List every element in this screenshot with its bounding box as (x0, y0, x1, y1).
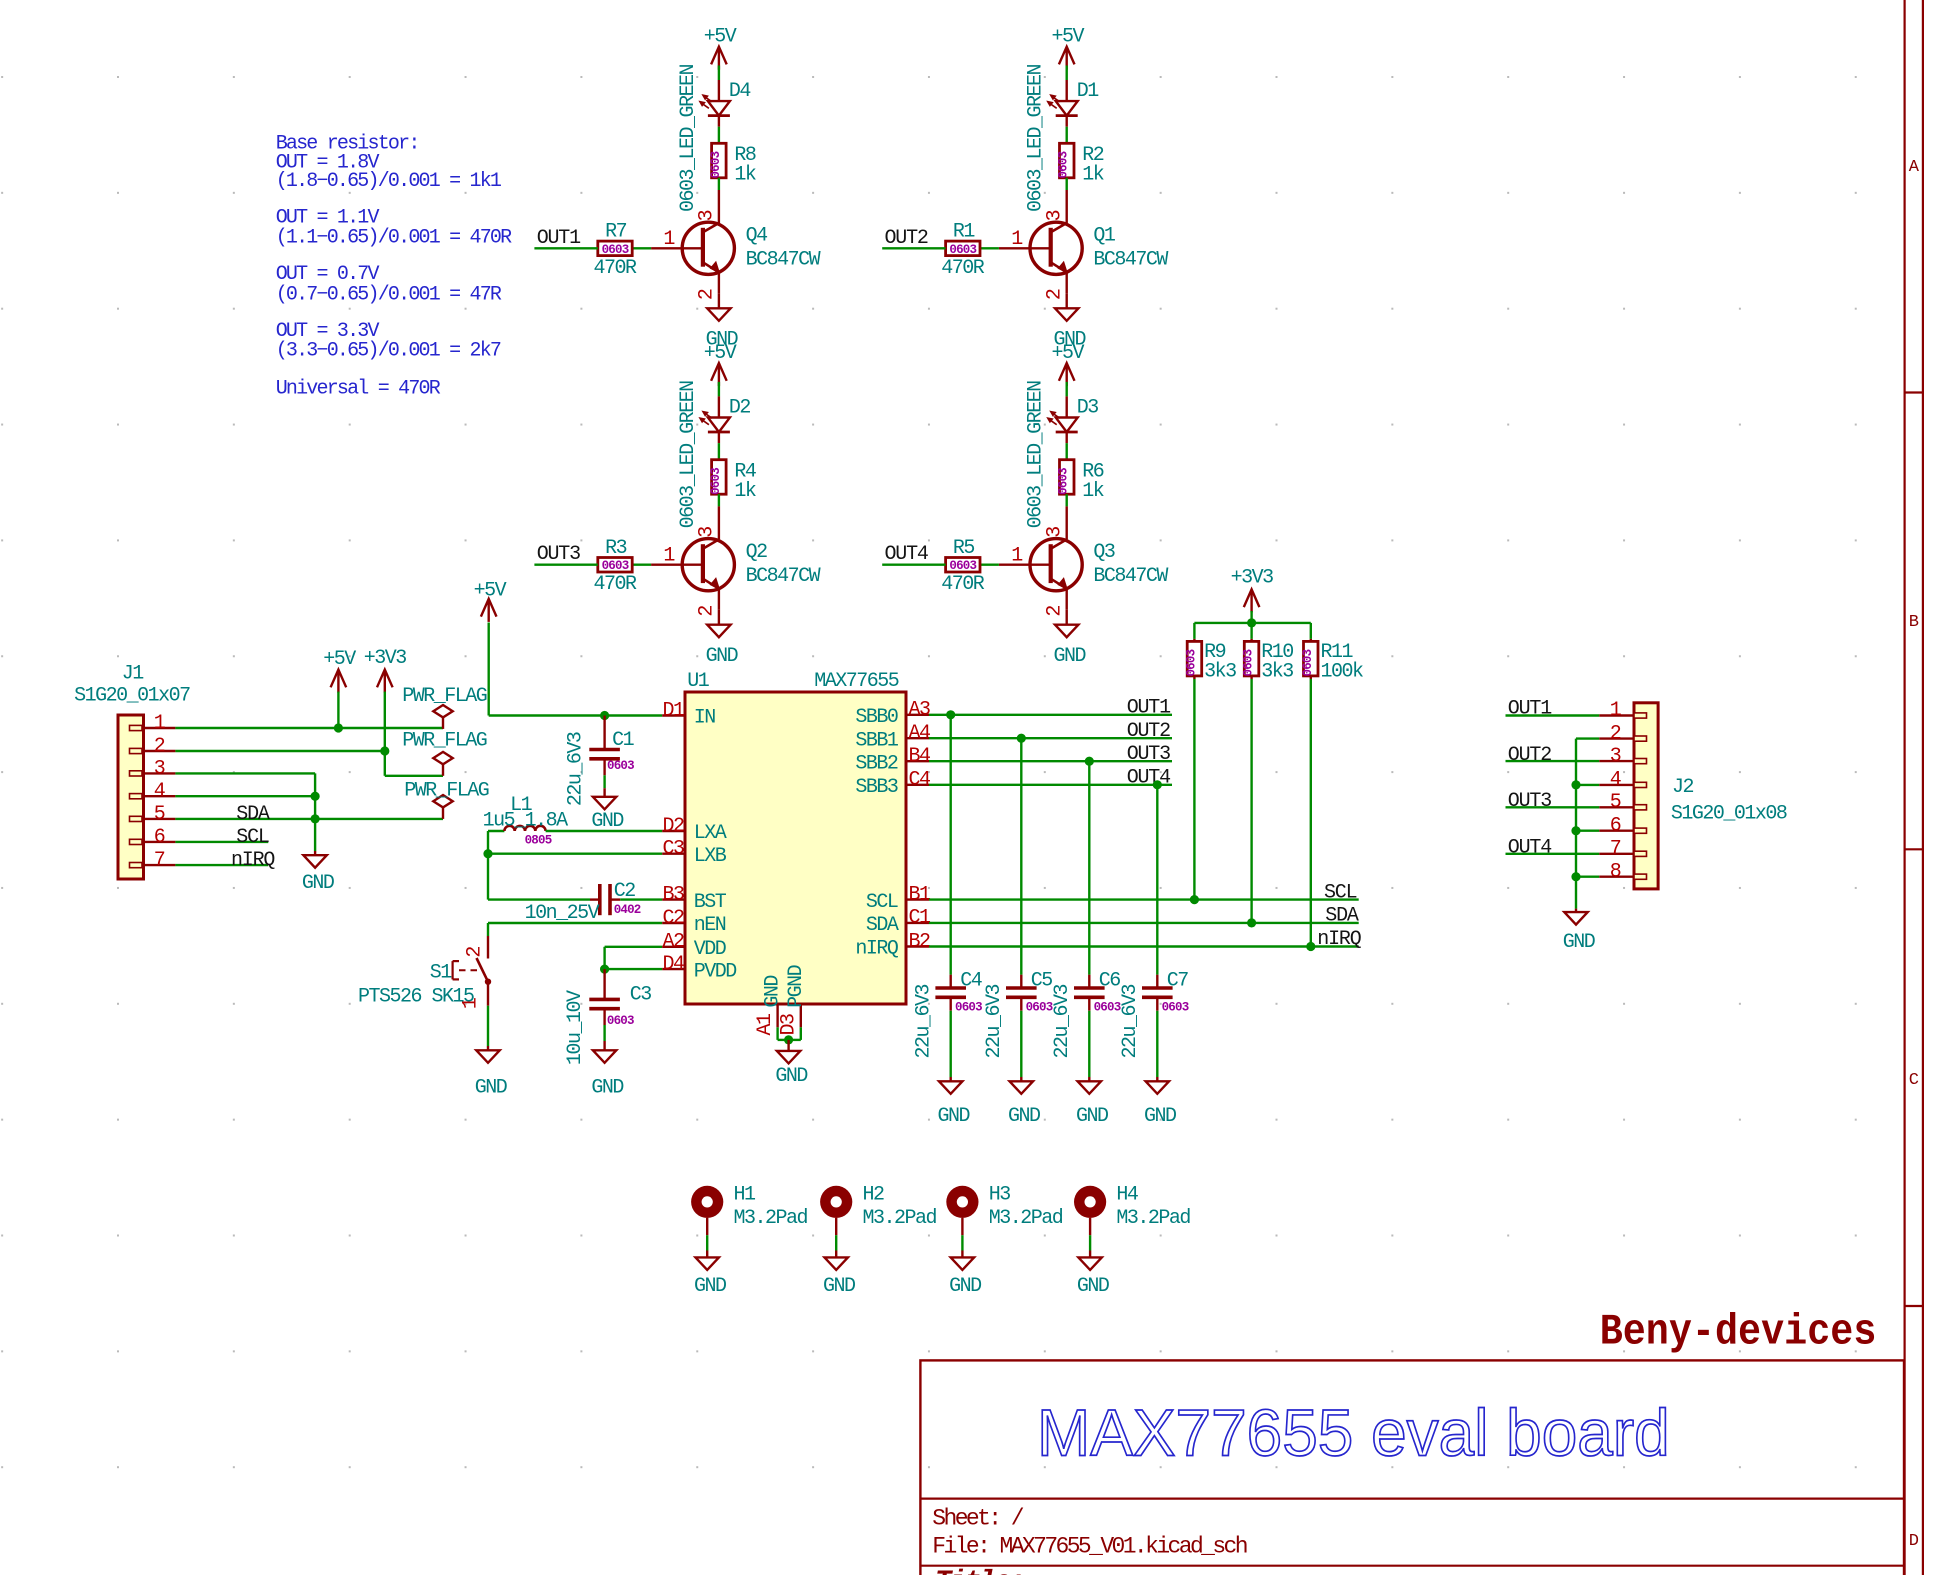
svg-text:GND: GND (706, 645, 738, 668)
svg-text:OUT3: OUT3 (1508, 790, 1551, 813)
svg-text:+5V: +5V (704, 26, 737, 49)
svg-text:1: 1 (663, 228, 675, 251)
svg-text:470R: 470R (593, 573, 637, 596)
svg-text:H2: H2 (863, 1183, 885, 1206)
svg-text:OUT4: OUT4 (885, 543, 928, 566)
svg-text:1k: 1k (734, 480, 756, 503)
svg-text:B3: B3 (662, 883, 684, 906)
svg-text:1k: 1k (1082, 164, 1104, 187)
svg-text:3k3: 3k3 (1204, 661, 1236, 684)
svg-text:OUT1: OUT1 (1508, 697, 1552, 720)
svg-text:0603: 0603 (1057, 151, 1071, 178)
svg-text:1: 1 (1011, 228, 1023, 251)
svg-text:3: 3 (154, 757, 165, 780)
svg-text:File: MAX77655_V01.kicad_sch: File: MAX77655_V01.kicad_sch (932, 1534, 1246, 1560)
svg-text:D2: D2 (729, 397, 751, 420)
svg-text:PGND: PGND (785, 965, 808, 1008)
svg-text:GND: GND (591, 1077, 623, 1100)
svg-text:0603: 0603 (709, 468, 723, 495)
svg-text:M3.2Pad: M3.2Pad (863, 1207, 937, 1230)
svg-text:D3: D3 (777, 1014, 800, 1036)
svg-text:0603: 0603 (1057, 468, 1071, 495)
svg-text:0603: 0603 (1184, 649, 1198, 676)
svg-text:0603: 0603 (949, 243, 976, 257)
svg-text:GND: GND (1077, 1275, 1109, 1298)
svg-text:(3.3−0.65)/0.001 = 2k7: (3.3−0.65)/0.001 = 2k7 (276, 340, 501, 363)
svg-text:0603_LED_GREEN: 0603_LED_GREEN (1025, 381, 1048, 529)
svg-text:GND: GND (1144, 1105, 1176, 1128)
svg-text:M3.2Pad: M3.2Pad (734, 1207, 808, 1230)
svg-text:0603_LED_GREEN: 0603_LED_GREEN (1025, 64, 1048, 212)
svg-text:0402: 0402 (614, 903, 641, 917)
svg-text:3k3: 3k3 (1261, 661, 1293, 684)
svg-text:7: 7 (154, 849, 165, 872)
svg-text:VDD: VDD (694, 938, 726, 961)
svg-text:PWR_FLAG: PWR_FLAG (402, 685, 487, 708)
svg-text:OUT2: OUT2 (1127, 720, 1170, 743)
svg-text:nIRQ: nIRQ (1317, 928, 1361, 951)
svg-text:SDA: SDA (866, 914, 899, 937)
svg-text:(1.1−0.65)/0.001 = 470R: (1.1−0.65)/0.001 = 470R (276, 226, 512, 249)
svg-text:PWR_FLAG: PWR_FLAG (402, 730, 487, 753)
svg-text:C3: C3 (662, 838, 684, 861)
svg-text:22u_6V3: 22u_6V3 (565, 732, 588, 806)
svg-text:OUT4: OUT4 (1127, 767, 1170, 790)
svg-text:C7: C7 (1167, 970, 1189, 993)
svg-text:10u_10V: 10u_10V (564, 990, 587, 1065)
svg-text:100k: 100k (1321, 661, 1364, 684)
svg-text:SBB3: SBB3 (855, 776, 898, 799)
svg-text:0603: 0603 (607, 759, 634, 773)
svg-text:8: 8 (1610, 860, 1621, 883)
svg-text:GND: GND (937, 1105, 969, 1128)
svg-text:J2: J2 (1672, 776, 1694, 799)
svg-text:22u_6V3: 22u_6V3 (912, 984, 935, 1058)
svg-text:Q4: Q4 (746, 225, 768, 248)
svg-text:470R: 470R (941, 573, 985, 596)
svg-text:MAX77655 eval board: MAX77655 eval board (1037, 1396, 1670, 1470)
svg-text:6: 6 (154, 826, 165, 849)
svg-text:GND: GND (1008, 1105, 1040, 1128)
svg-text:22u_6V3: 22u_6V3 (983, 984, 1006, 1058)
svg-text:B1: B1 (909, 883, 932, 906)
svg-text:5: 5 (154, 803, 165, 826)
svg-text:1k: 1k (1082, 480, 1104, 503)
svg-text:GND: GND (302, 872, 334, 895)
svg-text:470R: 470R (593, 257, 637, 280)
svg-text:0603: 0603 (602, 559, 629, 573)
svg-text:2: 2 (1044, 289, 1067, 300)
svg-text:GND: GND (762, 976, 785, 1008)
svg-text:OUT1: OUT1 (537, 227, 581, 250)
svg-text:2: 2 (1044, 606, 1067, 617)
svg-text:1: 1 (1011, 544, 1023, 567)
svg-text:GND: GND (1053, 645, 1085, 668)
svg-text:B4: B4 (909, 745, 931, 768)
svg-text:LXB: LXB (694, 845, 727, 868)
svg-text:0603: 0603 (955, 1001, 982, 1015)
svg-text:+3V3: +3V3 (364, 647, 407, 670)
svg-text:PVDD: PVDD (694, 960, 737, 983)
svg-text:OUT = 0.7V: OUT = 0.7V (276, 263, 380, 286)
svg-text:0603: 0603 (949, 559, 976, 573)
svg-text:2: 2 (1610, 722, 1621, 745)
svg-text:C4: C4 (909, 769, 931, 792)
svg-text:A: A (1909, 158, 1920, 177)
svg-text:R7: R7 (605, 221, 627, 244)
svg-text:C2: C2 (662, 907, 684, 930)
svg-text:0603: 0603 (709, 151, 723, 178)
svg-text:GND: GND (1563, 931, 1595, 954)
svg-text:U1: U1 (687, 670, 710, 693)
svg-text:BC847CW: BC847CW (1093, 249, 1168, 272)
svg-text:SDA: SDA (236, 803, 270, 826)
svg-text:Beny-devices: Beny-devices (1600, 1308, 1877, 1358)
svg-text:2: 2 (696, 606, 719, 617)
svg-text:BC847CW: BC847CW (746, 565, 821, 588)
svg-text:C: C (1909, 1071, 1919, 1090)
svg-text:2: 2 (463, 947, 486, 958)
svg-text:D1: D1 (1077, 80, 1100, 103)
svg-text:H1: H1 (734, 1183, 757, 1206)
svg-text:1k: 1k (734, 164, 756, 187)
svg-text:4: 4 (1610, 769, 1621, 792)
svg-text:1u5_1.8A: 1u5_1.8A (483, 810, 569, 833)
svg-text:SDA: SDA (1325, 905, 1359, 928)
svg-text:GND: GND (1076, 1105, 1108, 1128)
svg-text:C1: C1 (909, 907, 932, 930)
svg-text:R1: R1 (953, 221, 976, 244)
svg-text:GND: GND (823, 1275, 855, 1298)
svg-text:BC847CW: BC847CW (1093, 565, 1168, 588)
svg-text:2: 2 (696, 289, 719, 300)
svg-text:C6: C6 (1099, 970, 1121, 993)
svg-text:+5V: +5V (1052, 26, 1085, 49)
svg-text:GND: GND (694, 1275, 726, 1298)
svg-text:A3: A3 (909, 699, 931, 722)
svg-text:H3: H3 (989, 1183, 1011, 1206)
svg-text:0603: 0603 (1301, 649, 1315, 676)
svg-text:SCL: SCL (236, 826, 269, 849)
svg-text:A4: A4 (909, 722, 931, 745)
svg-text:PWR_FLAG: PWR_FLAG (404, 780, 489, 803)
svg-text:C1: C1 (612, 729, 635, 752)
svg-text:H4: H4 (1116, 1183, 1138, 1206)
svg-text:A1: A1 (754, 1013, 777, 1036)
svg-text:0603: 0603 (1094, 1001, 1121, 1015)
svg-text:Title:: Title: (935, 1567, 1024, 1575)
svg-text:Q3: Q3 (1093, 541, 1115, 564)
svg-text:IN: IN (694, 707, 716, 730)
svg-text:C3: C3 (630, 984, 652, 1007)
svg-text:nIRQ: nIRQ (855, 938, 899, 961)
svg-text:+3V3: +3V3 (1231, 567, 1274, 590)
svg-text:Q2: Q2 (746, 541, 768, 564)
svg-text:+5V: +5V (704, 342, 737, 365)
svg-text:GND: GND (949, 1275, 981, 1298)
svg-text:1: 1 (1610, 699, 1622, 722)
svg-text:OUT2: OUT2 (885, 227, 928, 250)
svg-text:D4: D4 (662, 953, 684, 976)
svg-text:5: 5 (1610, 791, 1621, 814)
svg-text:SCL: SCL (1324, 882, 1357, 905)
svg-text:J1: J1 (122, 663, 145, 686)
svg-text:OUT2: OUT2 (1508, 744, 1551, 767)
svg-text:4: 4 (154, 780, 165, 803)
svg-text:0603_LED_GREEN: 0603_LED_GREEN (677, 381, 700, 529)
svg-text:1: 1 (154, 712, 166, 735)
svg-text:0603: 0603 (1026, 1001, 1053, 1015)
svg-text:D1: D1 (662, 699, 685, 722)
svg-text:(1.8−0.65)/0.001 = 1k1: (1.8−0.65)/0.001 = 1k1 (276, 170, 502, 193)
svg-text:1: 1 (663, 544, 675, 567)
svg-text:0603: 0603 (602, 243, 629, 257)
svg-text:OUT1: OUT1 (1127, 697, 1171, 720)
svg-text:SBB2: SBB2 (855, 752, 898, 775)
svg-text:D3: D3 (1077, 397, 1099, 420)
svg-text:nEN: nEN (694, 914, 726, 937)
svg-text:R5: R5 (953, 537, 975, 560)
svg-text:+5V: +5V (323, 648, 356, 671)
svg-text:S1G20_01x08: S1G20_01x08 (1671, 803, 1787, 826)
svg-text:R3: R3 (605, 537, 627, 560)
svg-text:C4: C4 (960, 970, 982, 993)
svg-text:SBB1: SBB1 (855, 729, 899, 752)
svg-text:OUT3: OUT3 (537, 543, 580, 566)
svg-text:M3.2Pad: M3.2Pad (989, 1207, 1063, 1230)
svg-text:M3.2Pad: M3.2Pad (1116, 1207, 1190, 1230)
svg-text:+5V: +5V (474, 579, 507, 602)
svg-text:7: 7 (1610, 838, 1621, 861)
svg-text:Sheet: /: Sheet: / (932, 1506, 1023, 1532)
svg-text:6: 6 (1610, 814, 1621, 837)
svg-text:Q1: Q1 (1093, 225, 1116, 248)
svg-text:0603: 0603 (607, 1014, 634, 1028)
svg-text:MAX77655: MAX77655 (814, 670, 899, 693)
svg-text:PTS526 SK15: PTS526 SK15 (358, 986, 474, 1009)
svg-text:A2: A2 (662, 931, 684, 954)
svg-text:C2: C2 (614, 880, 636, 903)
svg-text:BC847CW: BC847CW (746, 249, 821, 272)
svg-text:S1: S1 (430, 962, 453, 985)
svg-text:OUT3: OUT3 (1127, 743, 1170, 766)
svg-text:SBB0: SBB0 (855, 706, 898, 729)
svg-text:0805: 0805 (525, 833, 552, 847)
svg-text:nIRQ: nIRQ (231, 849, 275, 872)
svg-text:3: 3 (1610, 745, 1621, 768)
svg-text:0603: 0603 (1162, 1001, 1189, 1015)
svg-text:D: D (1909, 1532, 1919, 1551)
svg-text:S1G20_01x07: S1G20_01x07 (74, 684, 190, 707)
svg-text:B2: B2 (909, 930, 931, 953)
svg-text:OUT4: OUT4 (1508, 837, 1551, 860)
svg-text:C5: C5 (1031, 970, 1053, 993)
svg-text:GND: GND (591, 810, 623, 833)
svg-text:BST: BST (694, 891, 727, 914)
svg-text:0603_LED_GREEN: 0603_LED_GREEN (677, 64, 700, 212)
svg-text:22u_6V3: 22u_6V3 (1051, 984, 1074, 1058)
svg-text:470R: 470R (941, 257, 985, 280)
svg-text:(0.7−0.65)/0.001 = 47R: (0.7−0.65)/0.001 = 47R (276, 284, 502, 307)
svg-text:D4: D4 (729, 80, 751, 103)
svg-text:LXA: LXA (694, 822, 727, 845)
svg-text:SCL: SCL (866, 891, 898, 914)
svg-text:Universal = 470R: Universal = 470R (276, 377, 441, 400)
svg-text:B: B (1909, 613, 1919, 632)
svg-text:GND: GND (775, 1065, 807, 1088)
svg-text:0603: 0603 (1242, 649, 1256, 676)
svg-text:1: 1 (460, 997, 483, 1009)
svg-text:+5V: +5V (1052, 342, 1085, 365)
svg-text:10n_25V: 10n_25V (525, 902, 600, 925)
svg-text:D2: D2 (662, 815, 684, 838)
svg-text:GND: GND (475, 1077, 507, 1100)
svg-text:22u_6V3: 22u_6V3 (1119, 984, 1142, 1058)
svg-text:2: 2 (154, 735, 165, 758)
